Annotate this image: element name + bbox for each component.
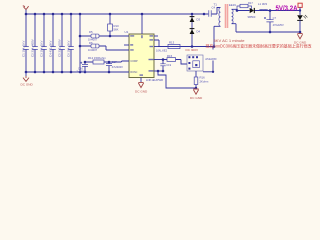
svg-text:T1: T1 — [214, 3, 218, 7]
wire opto out right — [203, 47, 213, 72]
ground DC GND (under U1) — [135, 82, 148, 93]
U1 pin name marks — [130, 35, 153, 76]
svg-text:C7: C7 — [273, 16, 277, 20]
U1 pin top wire — [141, 14, 143, 34]
svg-text:R17: R17 — [248, 1, 253, 5]
wire top VCC bus — [26, 13, 204, 15]
capacitor C2 — [31, 14, 38, 72]
svg-text:C1 104_1KV: C1 104_1KV — [22, 41, 26, 57]
node dots top bus — [25, 13, 206, 16]
secondary winding — [232, 9, 234, 23]
capacitor C5 — [58, 14, 65, 72]
U1 pin stubs right — [154, 36, 163, 71]
svg-text:R13: R13 — [169, 41, 175, 45]
svg-text:R15: R15 — [167, 54, 173, 58]
svg-text:C6 104_2KV: C6 104_2KV — [67, 41, 71, 57]
resistor R13 — [156, 41, 180, 53]
wire lower branch — [80, 46, 129, 50]
U1 pin stubs left — [124, 36, 129, 72]
capacitor C1 — [22, 14, 29, 72]
wire rail x80 — [79, 14, 81, 72]
ground DC GND (secondary) — [294, 34, 307, 45]
ground DC GND (bottom-left) — [21, 72, 34, 87]
svg-text:LNK1EUPWR: LNK1EUPWR — [146, 78, 164, 82]
svg-text:47uf400V: 47uf400V — [112, 65, 123, 69]
optocoupler U2 — [187, 55, 217, 71]
diode D4 (clamp bottom, black) — [190, 29, 201, 34]
port 5V (red square) — [298, 3, 302, 15]
svg-text:EE19: EE19 — [229, 3, 236, 7]
svg-text:1N4007: 1N4007 — [88, 48, 98, 52]
svg-text:DC 300V: DC 300V — [186, 48, 199, 52]
svg-text:D5: D5 — [89, 30, 93, 34]
wire to IC pin — [109, 61, 129, 62]
svg-text:DC GND: DC GND — [135, 90, 148, 94]
svg-text:D6: D6 — [89, 41, 93, 45]
secondary bottom wire — [232, 24, 237, 32]
node (85,62),(109,62) — [84, 61, 87, 64]
resistor R12 — [85, 56, 109, 64]
op IC U1 body — [125, 30, 155, 78]
svg-text:DC GND: DC GND — [21, 83, 34, 87]
wire opto input — [181, 60, 187, 65]
node (110,36) — [109, 35, 112, 38]
ground DC GND (right) — [190, 89, 203, 100]
svg-text:D3: D3 — [197, 17, 201, 21]
svg-text:C2 224_400V: C2 224_400V — [31, 39, 35, 57]
wire bottom return bus — [26, 71, 129, 73]
capacitor C7 (output) — [264, 11, 284, 33]
wire secondary rail — [237, 10, 300, 12]
svg-text:ROSC: ROSC — [130, 71, 137, 74]
svg-text:2uf450V: 2uf450V — [77, 70, 87, 74]
svg-text:COMP: COMP — [130, 60, 138, 63]
svg-text:现有AxxDC300高压变压器未做耐高压要求的基础上进行修改: 现有AxxDC300高压变压器未做耐高压要求的基础上进行修改 — [206, 43, 312, 49]
svg-text:L1 3R3: L1 3R3 — [258, 2, 267, 6]
resistor R15 — [163, 54, 181, 61]
diode D8 (LED, black) — [297, 15, 307, 32]
core — [225, 4, 229, 28]
svg-text:R12 150Kohm: R12 150Kohm — [88, 56, 107, 60]
svg-text:C4 471_2KV: C4 471_2KV — [49, 41, 53, 57]
svg-text:5V/3.2A: 5V/3.2A — [276, 4, 299, 13]
svg-text:SB560: SB560 — [248, 15, 256, 19]
svg-text:56K: 56K — [114, 28, 119, 32]
primary winding — [219, 8, 221, 27]
capacitor C4a (series on bus) — [204, 6, 221, 17]
capacitor C4 — [49, 14, 56, 72]
diode D6 — [88, 41, 99, 52]
power port VCC (top-left, dark red) — [23, 6, 29, 14]
svg-text:470uf25V: 470uf25V — [273, 23, 284, 27]
resistor R17 (snubber) — [237, 1, 253, 11]
resistor R10 — [108, 14, 119, 36]
svg-text:C19: C19 — [166, 63, 171, 67]
capacitor C19 — [160, 60, 171, 72]
U1 pin bottom wire — [140, 78, 142, 83]
wire drain — [158, 46, 214, 48]
capacitor C17 — [106, 60, 123, 72]
inductor L1 — [258, 2, 268, 11]
capacitor C6 — [67, 14, 74, 72]
node (192,46.5),(214,46.5) — [191, 45, 194, 48]
node dots bottom bus — [25, 71, 111, 74]
wire upper branch — [80, 35, 129, 37]
svg-text:2Kohm: 2Kohm — [200, 79, 210, 83]
svg-text:C5 225_250V: C5 225_250V — [58, 39, 62, 57]
node (196,88) — [195, 87, 197, 89]
svg-text:DC GND: DC GND — [190, 96, 203, 100]
diode D3 (clamp top, black) — [190, 14, 201, 47]
transformer T1 — [214, 3, 238, 47]
capacitor C16 — [77, 62, 89, 74]
svg-text:C3 104_1KV: C3 104_1KV — [40, 41, 44, 57]
svg-text:5KV AC 1 minute: 5KV AC 1 minute — [214, 38, 245, 43]
secondary top wire — [232, 9, 238, 10]
primary bottom wire — [214, 26, 221, 46]
svg-text:U2S1EUPWR: U2S1EUPWR — [205, 57, 217, 61]
diode D1 (output rectifier, black) — [248, 8, 256, 19]
node (80,36) and (80,46) — [79, 35, 82, 38]
diode D5 — [88, 30, 99, 41]
svg-text:D4: D4 — [197, 29, 201, 33]
wire feedback staircase — [158, 71, 196, 88]
resistor R16 — [194, 71, 209, 89]
svg-text:U1: U1 — [125, 30, 129, 34]
wire secondary return — [236, 31, 300, 33]
capacitor C3 — [40, 14, 47, 72]
node (163,59.5),(163,71),(158,71) — [162, 58, 165, 61]
svg-text:10N_KE2: 10N_KE2 — [156, 48, 168, 52]
